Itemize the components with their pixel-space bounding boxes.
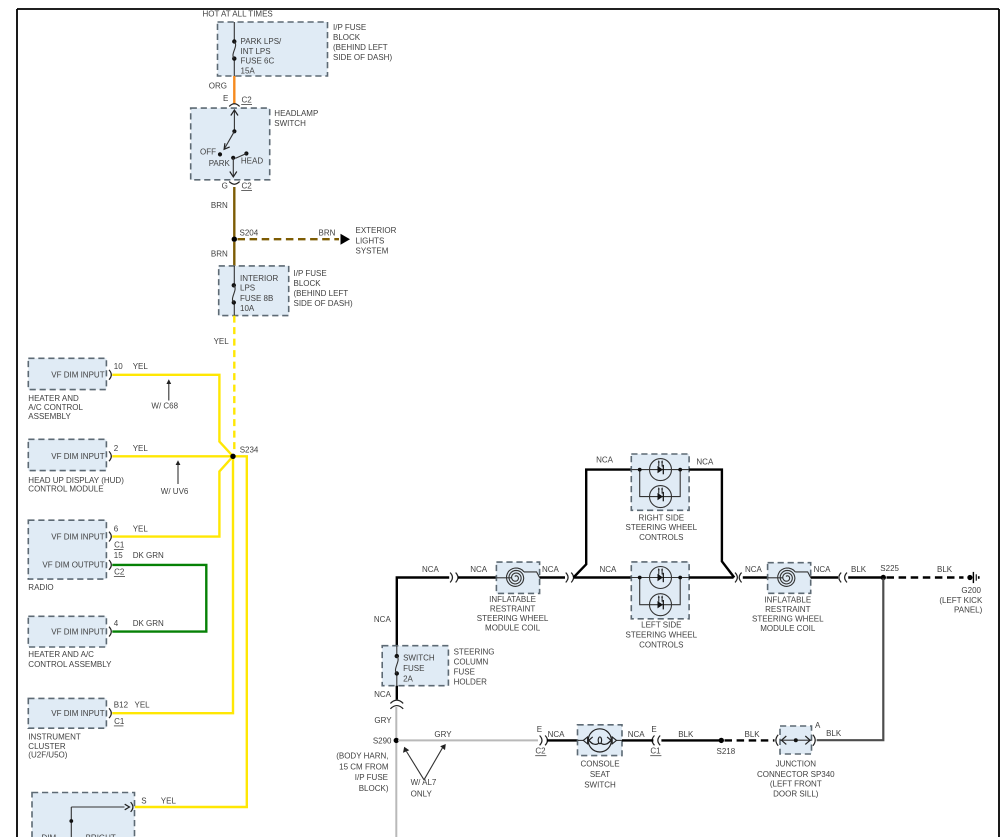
wire YEL dashed interior fuse to S234	[233, 316, 235, 454]
switch fuse holder box	[382, 646, 448, 686]
coil 1 internal wire and spiral	[496, 568, 539, 586]
LED symbol left side lower	[658, 595, 664, 609]
label INFLATABLE RESTRAINT STEERING WHEEL MODULE COIL 2	[752, 596, 824, 634]
svg-text:(LEFT FRONT: (LEFT FRONT	[770, 780, 822, 789]
label I/P FUSE BLOCK (BEHIND LEFT SIDE OF DASH) lower	[294, 269, 353, 308]
console seat switch box	[578, 725, 623, 756]
wire YEL HUD pin 2 to S234	[112, 455, 231, 457]
svg-text:2: 2	[114, 444, 119, 453]
svg-text:PARK LPS/: PARK LPS/	[241, 37, 283, 46]
svg-text:SWITCH: SWITCH	[584, 781, 616, 790]
HUD control module VF DIM INPUT box	[28, 439, 106, 470]
svg-text:10A: 10A	[240, 304, 255, 313]
svg-text:C1: C1	[650, 747, 661, 756]
wire BRN S204 to interior fuse	[233, 242, 235, 266]
splice S225	[881, 575, 886, 580]
label HEATER AND A/C CONTROL ASSEMBLY 2	[28, 650, 112, 669]
svg-text:CONTROLS: CONTROLS	[639, 640, 683, 649]
svg-text:BLK: BLK	[745, 730, 761, 739]
svg-text:C2: C2	[535, 747, 546, 756]
inline connector GRY/NCA at console pin E	[540, 736, 548, 746]
wire BRN dashed to exterior lights system	[238, 238, 340, 240]
svg-text:EXTERIOR: EXTERIOR	[356, 226, 397, 235]
svg-text:SEAT: SEAT	[590, 770, 610, 779]
connector arc pin B12	[109, 708, 111, 718]
svg-text:HEADLAMP: HEADLAMP	[274, 109, 318, 118]
svg-text:RESTRAINT: RESTRAINT	[765, 605, 810, 614]
svg-text:E: E	[537, 725, 542, 734]
wire NCA left side controls to merge connector	[689, 576, 733, 578]
svg-text:(LEFT KICK: (LEFT KICK	[939, 596, 983, 605]
svg-text:FUSE 8B: FUSE 8B	[240, 294, 273, 303]
svg-text:W/ C68: W/ C68	[151, 401, 178, 410]
svg-text:G: G	[222, 181, 228, 190]
wire NCA coil 1 to connector 2	[540, 576, 565, 578]
svg-text:BLOCK: BLOCK	[294, 279, 322, 288]
svg-text:ORG: ORG	[209, 81, 227, 90]
svg-text:S234: S234	[240, 445, 259, 454]
svg-text:OFF: OFF	[200, 148, 216, 157]
label INSTRUMENT CLUSTER (U2F/U5O)	[28, 732, 81, 759]
label JUNCTION CONNECTOR SP340 (LEFT FRONT DOOR SILL)	[757, 759, 835, 798]
svg-text:GRY: GRY	[374, 716, 392, 725]
svg-text:HEATER AND A/C: HEATER AND A/C	[28, 650, 94, 659]
wire YEL instrument cluster B12 to S234	[112, 456, 233, 713]
svg-text:DK GRN: DK GRN	[133, 551, 164, 560]
svg-text:(BEHIND LEFT: (BEHIND LEFT	[294, 289, 349, 298]
arrow to exterior lights system	[341, 234, 351, 245]
svg-text:G200: G200	[961, 586, 981, 595]
svg-text:HOT AT ALL TIMES: HOT AT ALL TIMES	[203, 10, 273, 19]
svg-text:FUSE 6C: FUSE 6C	[241, 57, 275, 66]
wire BLK connector to S225	[848, 576, 881, 578]
inline connector on main line 3	[839, 573, 847, 583]
svg-text:RADIO: RADIO	[28, 583, 53, 592]
svg-text:FUSE: FUSE	[403, 664, 424, 673]
svg-text:STEERING WHEEL: STEERING WHEEL	[477, 614, 549, 623]
svg-text:NCA: NCA	[600, 565, 618, 574]
svg-text:INFLATABLE: INFLATABLE	[764, 596, 811, 605]
svg-text:NCA: NCA	[422, 565, 440, 574]
wire inside fuse block F2	[233, 266, 235, 316]
inflatable restraint steering wheel module coil 2 box	[768, 563, 811, 594]
right side controls internal LED network	[631, 459, 689, 508]
svg-text:HEATER AND: HEATER AND	[28, 394, 79, 403]
arrows W/ AL7 ONLY	[403, 744, 446, 798]
wire GRY connector down to S290 and bottom	[395, 707, 397, 837]
svg-text:2A: 2A	[403, 675, 413, 684]
wire YEL radio pin 6 to S234	[112, 456, 233, 536]
switch fuse value labels	[403, 654, 435, 684]
svg-text:COLUMN: COLUMN	[454, 657, 489, 666]
inline connector at console pin E right	[652, 736, 660, 746]
svg-text:RESTRAINT: RESTRAINT	[490, 604, 535, 613]
arrow W/ C68	[151, 379, 178, 410]
svg-text:W/ UV6: W/ UV6	[161, 487, 189, 496]
wire NCA switch fuse down to inline connector	[396, 686, 398, 700]
coil 2 internal wire and spiral	[768, 568, 811, 586]
svg-text:ASSEMBLY: ASSEMBLY	[28, 412, 71, 421]
svg-text:(BODY HARN,: (BODY HARN,	[336, 752, 388, 761]
label RIGHT SIDE STEERING WHEEL CONTROLS	[626, 513, 698, 541]
splice S218	[719, 738, 724, 743]
svg-text:S218: S218	[717, 747, 736, 756]
wire BLK dashed S218 to junction connector	[725, 739, 775, 741]
inline connector at merge	[735, 573, 742, 583]
svg-text:INT LPS: INT LPS	[241, 47, 271, 56]
wire inside fuse block F1	[233, 22, 235, 76]
labels OFF PARK HEAD	[200, 148, 263, 169]
wire NCA main to left side controls	[574, 576, 632, 578]
junction connector internal arrows	[780, 736, 812, 744]
svg-text:(BEHIND LEFT: (BEHIND LEFT	[333, 43, 388, 52]
svg-text:MODULE COIL: MODULE COIL	[760, 624, 816, 633]
svg-text:INTERIOR: INTERIOR	[240, 274, 278, 283]
splice S204	[232, 237, 237, 242]
svg-text:NCA: NCA	[542, 565, 560, 574]
svg-text:I/P FUSE: I/P FUSE	[333, 23, 366, 32]
wire NCA right side controls down to merge	[689, 470, 734, 578]
svg-text:E: E	[651, 725, 656, 734]
junction connector left arc	[776, 735, 778, 746]
svg-text:YEL: YEL	[133, 444, 149, 453]
LED symbol right side lower	[658, 487, 664, 501]
fuse F2 value labels	[240, 274, 278, 313]
wire NCA connector to console switch	[547, 739, 578, 741]
svg-text:NCA: NCA	[548, 730, 566, 739]
console seat switch lamp symbol	[578, 729, 623, 752]
svg-text:C1: C1	[114, 541, 125, 550]
svg-text:S: S	[141, 796, 146, 805]
heater A/C assembly 2 VF DIM INPUT box	[28, 616, 106, 647]
svg-text:W/ AL7: W/ AL7	[411, 778, 437, 787]
svg-text:VF DIM INPUT: VF DIM INPUT	[51, 709, 104, 718]
wire YEL heater A/C pin 10 to S234	[112, 375, 233, 457]
svg-text:CONTROL MODULE: CONTROL MODULE	[28, 485, 103, 494]
svg-text:HEAD: HEAD	[241, 157, 263, 166]
svg-text:LPS: LPS	[240, 284, 255, 293]
wire NCA branch up to right side controls	[574, 470, 632, 578]
wire NCA merge to coil 2	[743, 576, 768, 578]
svg-text:6: 6	[114, 524, 119, 533]
svg-text:NCA: NCA	[596, 455, 614, 464]
connector arc pin 4	[109, 627, 111, 637]
svg-text:HEAD UP DISPLAY (HUD): HEAD UP DISPLAY (HUD)	[28, 476, 124, 485]
svg-text:I/P FUSE: I/P FUSE	[355, 773, 388, 782]
svg-text:PANEL): PANEL)	[954, 606, 983, 615]
wire NCA switch fuse up to main line and right to connector	[397, 578, 449, 646]
dimmer switch box (DIM/BRIGHT)	[32, 793, 135, 837]
svg-text:STEERING WHEEL: STEERING WHEEL	[626, 523, 698, 532]
svg-text:NCA: NCA	[745, 565, 763, 574]
connector arc radio pin 15	[109, 560, 111, 570]
fuse block F1 box (I/P fuse block)	[218, 22, 328, 76]
svg-text:FUSE: FUSE	[454, 667, 475, 676]
label EXTERIOR LIGHTS SYSTEM	[356, 226, 397, 255]
svg-text:YEL: YEL	[135, 701, 151, 710]
svg-text:NCA: NCA	[814, 565, 832, 574]
svg-text:BLOCK: BLOCK	[333, 33, 361, 42]
label HEADLAMP SWITCH	[274, 109, 318, 128]
inline connector on main line 2	[566, 573, 574, 583]
label LEFT SIDE STEERING WHEEL CONTROLS	[626, 620, 698, 649]
svg-text:INSTRUMENT: INSTRUMENT	[28, 732, 81, 741]
left side controls internal LED network	[631, 567, 689, 616]
wire NCA console to connector	[622, 739, 653, 741]
svg-text:VF DIM OUTPUT: VF DIM OUTPUT	[42, 561, 104, 570]
svg-text:SIDE OF DASH): SIDE OF DASH)	[333, 53, 392, 62]
svg-text:SYSTEM: SYSTEM	[356, 247, 389, 256]
svg-text:10: 10	[114, 362, 123, 371]
svg-text:ONLY: ONLY	[411, 789, 433, 798]
svg-text:YEL: YEL	[214, 337, 230, 346]
svg-text:A/C CONTROL: A/C CONTROL	[28, 403, 83, 412]
splice S234	[230, 454, 235, 459]
label STEERING COLUMN FUSE HOLDER	[454, 647, 495, 686]
ground G200 symbol	[967, 572, 979, 583]
svg-text:CONTROLS: CONTROLS	[639, 533, 683, 542]
svg-text:MODULE COIL: MODULE COIL	[485, 623, 541, 632]
wire YEL dimmer switch S to S234	[135, 456, 247, 807]
svg-text:SIDE OF DASH): SIDE OF DASH)	[294, 299, 353, 308]
svg-text:STEERING WHEEL: STEERING WHEEL	[626, 630, 698, 639]
svg-text:CONTROL ASSEMBLY: CONTROL ASSEMBLY	[28, 660, 112, 669]
svg-text:15: 15	[114, 551, 123, 560]
svg-text:VF DIM INPUT: VF DIM INPUT	[51, 452, 104, 461]
svg-text:E: E	[223, 94, 228, 103]
wire BLK S225 down and left to junction connector	[817, 579, 884, 741]
svg-text:BRN: BRN	[211, 201, 228, 210]
svg-text:(U2F/U5O): (U2F/U5O)	[28, 750, 67, 759]
labels DIM BRIGHT	[42, 833, 116, 837]
svg-text:A: A	[815, 721, 821, 730]
junction connector right arc	[813, 735, 815, 746]
svg-text:BRIGHT: BRIGHT	[86, 833, 116, 837]
connector C2 arc at headlamp switch pin G	[229, 182, 239, 185]
splice S290	[394, 738, 399, 743]
arrow W/ UV6	[161, 460, 189, 496]
wire BLK dashed S225 to G200	[887, 576, 964, 578]
connector C2 arc at headlamp switch pin E	[229, 104, 239, 107]
svg-text:YEL: YEL	[133, 524, 149, 533]
svg-text:STEERING: STEERING	[454, 647, 495, 656]
radio box	[28, 520, 106, 579]
label INFLATABLE RESTRAINT STEERING WHEEL MODULE COIL 1	[477, 595, 549, 633]
svg-text:LIGHTS: LIGHTS	[356, 236, 385, 245]
svg-text:BLK: BLK	[937, 565, 953, 574]
svg-text:CONSOLE: CONSOLE	[580, 760, 619, 769]
svg-text:15 CM FROM: 15 CM FROM	[339, 763, 389, 772]
fuse block F2 box (I/P fuse block)	[219, 266, 289, 316]
label I/P FUSE BLOCK (BEHIND LEFT SIDE OF DASH) top	[333, 23, 392, 62]
headlamp switch box	[191, 108, 270, 180]
svg-text:S290: S290	[373, 737, 392, 746]
dimmer internal wiring	[69, 804, 129, 837]
connector arc pin 10	[109, 370, 111, 380]
wire ORG fuse to headlamp switch	[233, 76, 235, 104]
svg-text:VF DIM INPUT: VF DIM INPUT	[51, 532, 104, 541]
svg-text:CONNECTOR SP340: CONNECTOR SP340	[757, 770, 835, 779]
svg-text:VF DIM INPUT: VF DIM INPUT	[51, 627, 104, 636]
svg-text:JUNCTION: JUNCTION	[776, 759, 817, 768]
label HEATER AND A/C CONTROL ASSEMBLY	[28, 394, 83, 421]
fuse PARK LPS/INT LPS FUSE 6C 15A	[232, 39, 236, 61]
svg-text:RIGHT SIDE: RIGHT SIDE	[638, 513, 684, 522]
connector arc pin S	[131, 802, 133, 812]
label G200 (LEFT KICK PANEL)	[939, 586, 983, 614]
svg-text:C2: C2	[114, 568, 125, 577]
wire NCA coil 2 to connector 3	[811, 576, 838, 578]
svg-text:YEL: YEL	[133, 362, 149, 371]
svg-text:YEL: YEL	[161, 796, 177, 805]
svg-text:DK GRN: DK GRN	[133, 619, 164, 628]
svg-text:GRY: GRY	[434, 730, 452, 739]
instrument cluster VF DIM INPUT box	[28, 698, 106, 728]
svg-text:C2: C2	[242, 95, 253, 104]
svg-text:BRN: BRN	[319, 228, 336, 237]
inflatable restraint steering wheel module coil 1 box	[496, 562, 539, 593]
inline connector on main line 1	[450, 573, 458, 583]
svg-text:C1: C1	[114, 717, 125, 726]
svg-text:NCA: NCA	[374, 690, 392, 699]
headlamp switch internal symbol	[218, 110, 249, 177]
LED symbol left side upper	[658, 568, 664, 582]
svg-text:STEERING WHEEL: STEERING WHEEL	[752, 615, 824, 624]
heater A/C assembly VF DIM INPUT box	[28, 358, 106, 389]
wire BRN headlamp to S204	[233, 187, 235, 240]
fuse F1 value labels	[241, 37, 283, 75]
svg-text:INFLATABLE: INFLATABLE	[489, 595, 536, 604]
fuse SWITCH FUSE 2A	[395, 654, 399, 676]
svg-text:NCA: NCA	[696, 457, 714, 466]
connector arc radio pin 6	[109, 532, 111, 542]
svg-text:NCA: NCA	[374, 615, 392, 624]
svg-text:DOOR SILL): DOOR SILL)	[773, 789, 819, 798]
svg-text:C2: C2	[242, 181, 253, 190]
label HEAD UP DISPLAY (HUD) CONTROL MODULE	[28, 476, 124, 494]
svg-text:DIM: DIM	[42, 833, 57, 837]
svg-text:SWITCH: SWITCH	[274, 119, 306, 128]
wire NCA connector to coil 1	[458, 576, 496, 578]
LED symbol right side upper	[658, 460, 664, 474]
junction connector SP340 box	[780, 726, 812, 754]
svg-text:B12: B12	[114, 701, 129, 710]
wire DK GRN radio pin 15 to heater pin 4	[112, 565, 206, 632]
fuse INTERIOR LPS FUSE 8B 10A	[232, 283, 236, 305]
svg-text:BLK: BLK	[678, 730, 694, 739]
svg-text:BLK: BLK	[851, 565, 867, 574]
wire BLK connector to S218	[661, 739, 719, 741]
svg-text:BRN: BRN	[211, 249, 228, 258]
svg-text:S225: S225	[880, 564, 899, 573]
label CONSOLE SEAT SWITCH	[580, 760, 619, 790]
svg-text:NCA: NCA	[470, 565, 488, 574]
connector arc pin 2	[109, 451, 111, 461]
svg-text:SWITCH: SWITCH	[403, 654, 435, 663]
left side steering wheel controls box	[631, 562, 689, 619]
label S290 (BODY HARN, 15 CM FROM I/P FUSE BLOCK)	[336, 737, 392, 793]
svg-text:BLOCK): BLOCK)	[359, 784, 389, 793]
svg-text:I/P FUSE: I/P FUSE	[294, 269, 327, 278]
svg-text:S204: S204	[240, 229, 259, 238]
inline connector NCA/GRY vertical	[390, 700, 403, 709]
wire inside switch fuse holder	[396, 646, 398, 686]
svg-text:15A: 15A	[241, 66, 256, 75]
right side steering wheel controls box	[631, 454, 689, 510]
svg-text:BLK: BLK	[826, 729, 842, 738]
svg-text:HOLDER: HOLDER	[454, 677, 488, 686]
svg-text:VF DIM INPUT: VF DIM INPUT	[51, 371, 104, 380]
wire GRY S290 to console connector	[398, 739, 538, 741]
svg-text:NCA: NCA	[628, 730, 646, 739]
svg-text:LEFT SIDE: LEFT SIDE	[641, 620, 681, 629]
svg-text:4: 4	[114, 619, 119, 628]
svg-text:PARK: PARK	[209, 159, 231, 168]
